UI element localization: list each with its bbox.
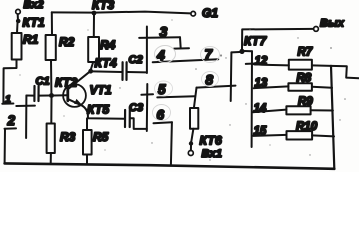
pin 1 line (2, 103, 13, 105)
svg-text:G1: G1 (202, 6, 218, 20)
right bus vertical (pins 12-15 mate) (251, 51, 253, 147)
svg-text:КТ4: КТ4 (95, 56, 117, 70)
resistor R1 (12, 33, 22, 60)
capacitor C3 plates (124, 110, 126, 127)
wire КТ3 to R4 (93, 15, 95, 37)
svg-text:КТ5: КТ5 (87, 103, 109, 117)
wire R5 to rail (86, 155, 88, 165)
svg-text:КТ1: КТ1 (23, 16, 45, 30)
pin 15 line (253, 135, 286, 136)
svg-text:VT1: VT1 (90, 83, 112, 97)
scan halo around pin 6 (153, 105, 171, 121)
node КТ2 dot (base junction) (49, 93, 54, 98)
svg-text:С3: С3 (129, 102, 143, 114)
wire R9 right to bus (311, 109, 333, 111)
wire base node to VT1 base (54, 94, 67, 96)
svg-text:2: 2 (7, 113, 16, 128)
scan halo around pin 5 (155, 81, 173, 96)
wire pin 8 to R (КТ6 branch) (194, 88, 197, 108)
wire pin 6 to rail (171, 122, 172, 165)
wire C1 left plate (26, 95, 33, 97)
wire Вых output (242, 29, 314, 50)
top supply rail КТ3 (52, 12, 191, 14)
socket contact for pin 5 (vertical to C3) (146, 84, 149, 131)
node КТ6 dot (189, 141, 193, 145)
pin 3 end stem (179, 37, 182, 48)
svg-text:C1: C1 (36, 76, 50, 88)
svg-text:R3: R3 (60, 130, 76, 144)
VT1 emitter line with arrow (68, 99, 82, 106)
svg-text:3: 3 (160, 24, 168, 40)
svg-text:Вых: Вых (320, 18, 345, 30)
wire КТ7 to left socket (231, 51, 239, 53)
wire R2 to base node (50, 60, 52, 93)
wire VT1 collector to КТ4 (89, 71, 91, 72)
pin 3 end bar (174, 47, 189, 49)
node КТ4 dot (88, 69, 93, 74)
pin 14 line (253, 110, 286, 113)
pin 4-7 jumper line (153, 59, 219, 62)
capacitor C1 plates (33, 86, 35, 101)
socket 1 crossbar (16, 105, 35, 107)
wire КТ6 to Вх1 (190, 146, 192, 151)
svg-text:R10: R10 (296, 121, 318, 133)
socket contact for pin 3 (vertical) (146, 27, 148, 74)
wire resistor to КТ6 dot (191, 129, 193, 142)
wire emitter node to R5 (86, 118, 88, 130)
resistor R5 (83, 130, 92, 155)
right bus down to rail (331, 66, 334, 169)
scan halo around pin 7 (201, 47, 220, 63)
speckles (19, 19, 345, 160)
wire C2 to socket 3 (128, 71, 147, 73)
terminal Вх1 open circle (188, 151, 193, 156)
transistor VT1 circle (63, 84, 86, 107)
wire R8 right to bus (312, 87, 332, 88)
wire top rail corner to R2 (51, 12, 53, 35)
wire pin 2 to ground rail (4, 129, 6, 164)
svg-text:R5: R5 (93, 130, 109, 144)
resistor R9 (286, 106, 310, 114)
wire emitter to C3 (with R5 tap) (83, 106, 125, 119)
svg-text:R1: R1 (23, 33, 39, 47)
svg-text:КТ3: КТ3 (92, 0, 114, 12)
svg-text:КТ7: КТ7 (244, 34, 267, 48)
scan halo around pin 4 (155, 46, 176, 63)
scan halo around pin 8 (202, 72, 219, 87)
svg-text:Вх1: Вх1 (202, 148, 223, 160)
wire R7 right to corner (312, 65, 359, 78)
wire C3 right plate to socket 5 (131, 118, 147, 129)
resistor R6 (КТ6 branch) (190, 108, 198, 129)
VT1 base bar (66, 87, 69, 101)
wire КТ7 to right bus (245, 50, 253, 52)
node КТ3 dot (92, 11, 97, 16)
capacitor C2 plates (121, 62, 123, 80)
ground rail (5, 163, 335, 168)
svg-text:14: 14 (254, 103, 267, 115)
wire Вх2 to КТ1 (17, 14, 19, 19)
wire КТ4 to C2 (93, 70, 122, 73)
wire R4 to КТ4 node (91, 62, 93, 69)
svg-text:R8: R8 (297, 73, 312, 85)
wire R1 to pin 1 (3, 60, 16, 103)
resistor R10 (287, 131, 313, 139)
svg-text:12: 12 (255, 56, 268, 68)
resistor R2 (46, 35, 56, 60)
svg-text:Вх2: Вх2 (24, 0, 44, 11)
socket contact left vertical (pin 8 mate) (230, 52, 233, 101)
terminal Вых open circle (314, 27, 319, 32)
pin 2 line (5, 127, 17, 129)
terminal G1 circle (191, 11, 196, 16)
wire C1 right plate to base node (40, 95, 50, 97)
svg-text:R2: R2 (59, 35, 75, 49)
wire КТ1 to R1 (16, 23, 19, 33)
pin 6 line (154, 121, 173, 124)
svg-text:4: 4 (156, 47, 165, 63)
svg-text:13: 13 (255, 78, 268, 90)
wire base node down to R3 (50, 98, 52, 124)
svg-text:КТ6: КТ6 (200, 134, 222, 148)
resistor R7 (289, 60, 312, 70)
wire R3 to rail (50, 153, 52, 164)
svg-text:8: 8 (206, 73, 214, 88)
socket 5 crossbar (141, 93, 153, 96)
VT1 collector line (68, 72, 89, 89)
socket 12 crossbar (246, 62, 259, 65)
node КТ1 dot (16, 19, 21, 24)
svg-text:R4: R4 (100, 38, 116, 52)
socket contact for pin 1 (vertical from C1) (25, 96, 27, 139)
svg-text:C2: C2 (129, 54, 143, 66)
pin 8 line (197, 86, 236, 88)
svg-text:R9: R9 (298, 96, 313, 108)
resistor R8 (288, 83, 312, 91)
pin 13 line (254, 86, 289, 88)
resistor R4 (88, 37, 99, 62)
terminal Вх2 open circle (16, 9, 21, 14)
pin 12 line (252, 64, 289, 65)
pin 5 line (157, 96, 195, 97)
node КТ7 dot (239, 49, 244, 54)
wire R10 right to bus (312, 135, 334, 136)
svg-text:15: 15 (254, 126, 267, 138)
resistor R3 (47, 124, 55, 154)
svg-text:R7: R7 (298, 47, 313, 59)
VT1 emitter arrowhead (74, 99, 82, 105)
pin 3 line (139, 36, 180, 39)
